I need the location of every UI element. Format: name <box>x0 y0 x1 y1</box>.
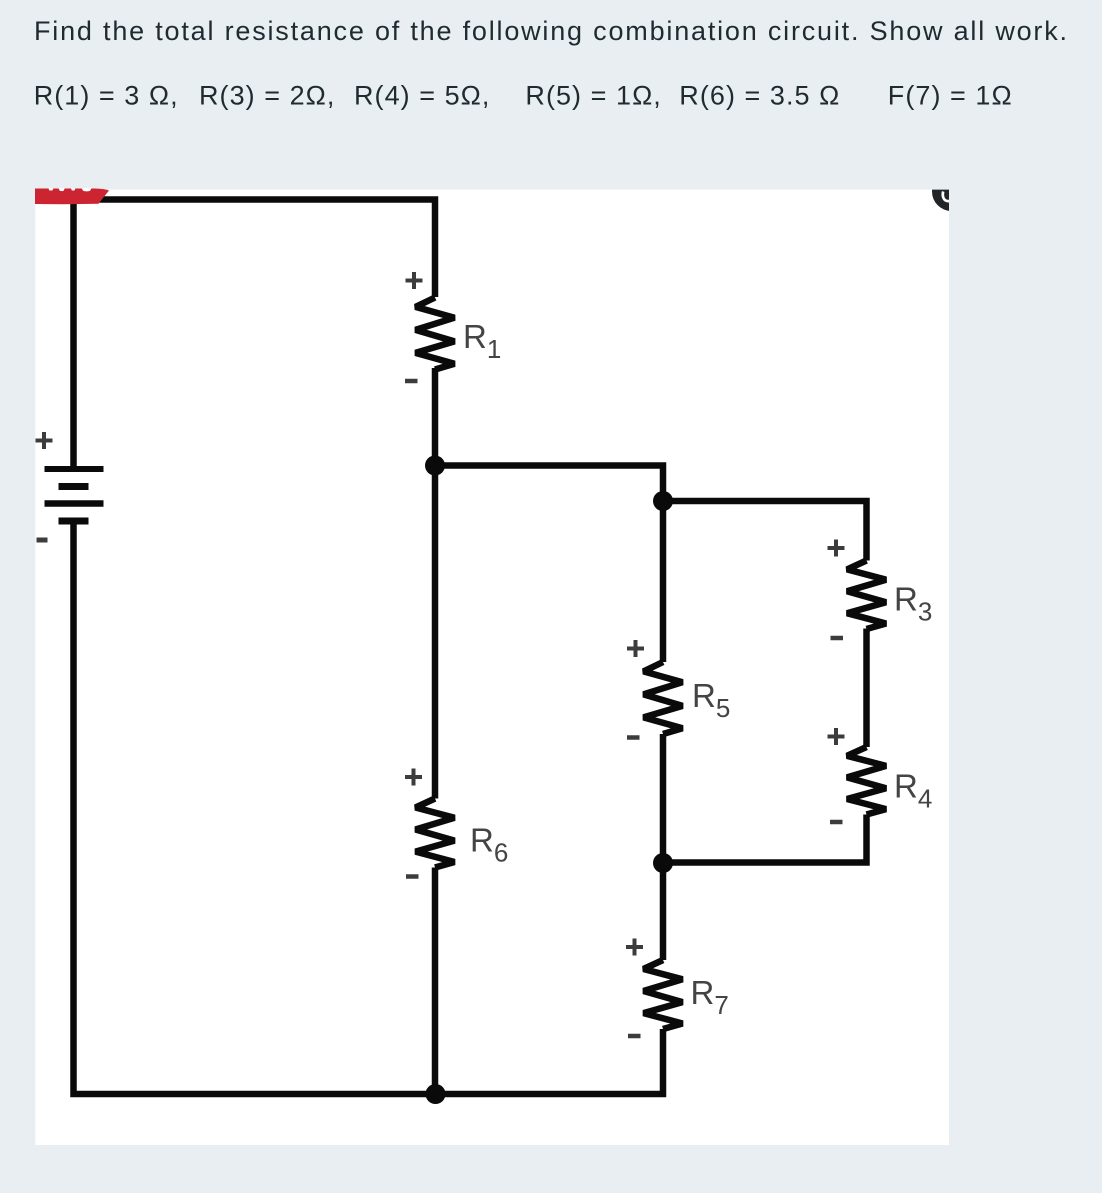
R7 minus polarity mark <box>628 1034 641 1039</box>
svg-text:Find the total resistance of t: Find the total resistance of the followi… <box>34 16 1069 46</box>
resistor R3 <box>847 561 886 630</box>
wire: battery positive lead up, top horizontal, down to R1 <box>74 200 436 468</box>
R4 minus polarity mark <box>830 820 843 825</box>
white diagram panel <box>35 190 949 1145</box>
wire: R6 bottom to bottom return wire <box>432 868 439 1095</box>
node B junction dot <box>653 491 673 511</box>
node A junction dot <box>425 456 445 476</box>
resistor R5 <box>644 662 683 734</box>
node C junction dot <box>653 853 673 873</box>
resistor R4 <box>847 747 886 815</box>
R5 plus polarity mark <box>627 640 644 657</box>
R1 minus polarity mark <box>405 379 418 384</box>
wire: node A to middle column <box>435 466 663 663</box>
R6 minus polarity mark <box>406 874 419 879</box>
wire: R5 bottom through node C to R7 top <box>660 734 667 960</box>
resistor R7 <box>644 960 683 1029</box>
R5 minus polarity mark <box>627 735 640 740</box>
resistor R1 <box>416 298 455 370</box>
wire: R1 bottom to node A down to R6 top <box>432 368 439 799</box>
wire: R3 bottom to R4 top <box>863 629 870 748</box>
resistor R6 <box>416 799 455 868</box>
red annotation blob (top-left) <box>35 189 109 205</box>
R6 plus polarity mark <box>405 769 422 786</box>
node D junction dot (bottom wire) <box>426 1084 446 1104</box>
wire: R4 bottom to node C <box>663 815 867 863</box>
wire: node B to right column down to R3 <box>663 501 867 561</box>
wire: battery negative lead, bottom horizontal return, up to R7 <box>74 521 664 1094</box>
R7 plus polarity mark <box>626 939 643 956</box>
R3 plus polarity mark <box>828 540 845 557</box>
battery minus polarity mark <box>37 538 48 543</box>
red annotation white scribble marks <box>49 188 92 191</box>
R1 plus polarity mark <box>406 272 423 289</box>
svg-text:R(1) = 3 Ω,R(3) = 2Ω,R(4) = 5Ω: R(1) = 3 Ω,R(3) = 2Ω,R(4) = 5Ω,R(5) = 1Ω… <box>34 81 1013 111</box>
R4 plus polarity mark <box>828 728 845 745</box>
battery B1 plates <box>45 469 104 521</box>
battery plus polarity mark <box>36 432 53 449</box>
R3 minus polarity mark <box>831 636 844 641</box>
